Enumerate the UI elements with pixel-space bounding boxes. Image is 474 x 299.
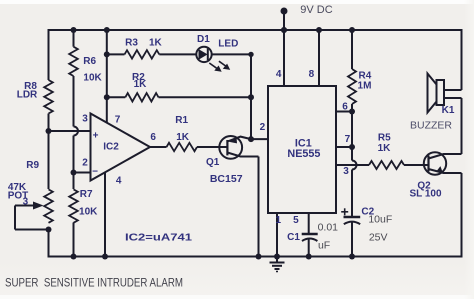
wire: to IC1 pin 2 [251,138,268,140]
wire: right rail top (supply to buzzer) [461,29,463,90]
wire: node B to R7 [73,173,75,190]
node: pin 1 on ground rail [274,254,280,260]
wire: R2 right lead [159,96,252,98]
wire: C1 to ground rail [308,240,310,257]
svg-text:D1: D1 [197,34,210,45]
node: R3/R2 branch on supply rail [104,27,110,33]
svg-text:7: 7 [115,115,121,126]
svg-text:4: 4 [276,69,282,80]
wire: IC1 pin 1 to ground rail [276,213,278,257]
node B: junction R6/R7/op-amp -input [71,170,77,176]
resistor R5 1K body [369,161,404,169]
svg-text:LED: LED [218,38,238,49]
wire: IC2 pin 4 stub to ground rail [104,172,106,256]
node: R6 top on supply rail [71,27,77,33]
svg-text:6: 6 [150,132,156,143]
node: pin 8 branch on supply rail [316,27,322,33]
capacitor C2 10uF electrolytic [341,206,392,243]
node: R2 right junction [248,94,254,100]
wire: IC2 pin 7 stub [106,97,108,123]
node: IC2 pin 4 on ground rail [102,254,108,260]
svg-text:SUPER SENSITIVE INTRUDER ALAR: SUPER SENSITIVE INTRUDER ALARM [5,277,183,290]
wire: C2 to ground rail [351,223,353,257]
svg-text:3: 3 [343,166,349,177]
node: pin 6 junction [349,109,355,115]
svg-text:1K: 1K [134,79,148,90]
wire: pin 6 node down to pin 7 node [351,112,353,148]
node: C2 on ground rail [349,254,355,260]
svg-text:−: − [92,167,98,178]
svg-text:SL 100: SL 100 [409,189,441,200]
transistor Q2 SL100 NPN [409,152,461,199]
svg-text:1K: 1K [176,132,190,143]
svg-text:3: 3 [82,114,88,125]
svg-text:LDR: LDR [17,89,38,100]
wire: top supply rail [49,29,462,31]
wire: R3 left lead [107,53,125,55]
node: LED corner [248,52,253,57]
svg-text:2: 2 [260,122,266,133]
node: R9 bottom / wiper junction [46,227,52,233]
wire: IC1 pin 3 output to R5 [336,164,369,166]
wire: R4 to pin 6 node [351,104,353,112]
resistor R6 10K body [69,47,78,76]
svg-text:25V: 25V [369,232,388,244]
svg-text:BC157: BC157 [210,173,243,185]
svg-text:5: 5 [293,215,299,226]
ground symbol [270,257,285,272]
svg-text:C1: C1 [287,232,300,243]
wire: corner down to R2 right junction [250,54,252,97]
wire: op-amp -input (pin 2) from node B [74,172,91,174]
wire: Q1 collector to ground rail [258,157,260,257]
wire: R6 down, hops over +input wire [73,76,75,127]
svg-text:6: 6 [342,102,348,113]
svg-text:8: 8 [309,69,315,80]
svg-text:IC2: IC2 [103,142,119,153]
resistor R1 1K body [167,143,198,151]
wire: pin 8 of IC1 [318,30,320,86]
node: R2 left junction / IC2 pin 7 [104,94,110,100]
wire: op-amp +input (pin 3) from node A [49,130,91,132]
svg-text:R3: R3 [125,38,138,49]
wire: buzzer to Q2 collector [461,98,463,154]
svg-text:R5: R5 [378,133,391,144]
svg-text:R9: R9 [26,160,39,171]
wire: R7 to ground rail [73,223,75,257]
wire: left rail bottom segment [48,230,50,258]
svg-text:9V DC: 9V DC [300,4,332,16]
svg-text:7: 7 [345,134,351,145]
wire: node A to R9 [48,131,50,189]
node: pin 7 junction [349,144,355,150]
resistor R8 LDR body [44,80,53,114]
op-amp U2 IC2 triangle [91,114,151,181]
svg-text:10uF: 10uF [368,213,392,225]
resistor R2 1K body [125,93,158,101]
wire: LED cathode to corner [212,53,251,55]
wire: R8 to node A [48,114,50,132]
svg-text:R1: R1 [175,115,188,126]
node: R7 bottom on ground rail [71,254,77,260]
svg-text:BUZZER: BUZZER [410,120,452,132]
wire: R3 to LED anode [159,53,196,55]
svg-text:4: 4 [116,176,122,187]
svg-text:10K: 10K [83,73,102,84]
IC U1 NE555 body [268,86,336,213]
wire: IC2 output to R1 [150,146,167,148]
wire: rail down to R3 junction [106,30,108,54]
wire: junction down to R2 junction [106,54,108,97]
wire: IC1 pin 6 stub [336,111,352,113]
svg-text:+: + [93,131,99,142]
diode D1 LED [196,34,238,62]
svg-text:R6: R6 [83,56,96,67]
svg-text:1K: 1K [149,38,163,49]
wire: R2 left lead [107,96,126,98]
wire: rail to R4 [351,30,353,69]
svg-text:NE555: NE555 [287,148,320,160]
wire: pin 7 node down with hop over pin 3 wire [351,147,353,161]
potentiometer R9 wiper arrow [15,197,49,230]
wire: R5 to Q2 base [404,164,429,166]
wire: R1 to Q1 base [197,146,227,148]
node 9V DC supply terminal [281,4,333,33]
svg-text:K1: K1 [442,105,455,116]
wire: IC1 pin 7 stub [336,146,352,148]
svg-text:1: 1 [276,215,282,226]
wire: down to Q1 emitter node [250,97,252,139]
svg-text:2: 2 [82,158,88,169]
resistor R7 10K body [69,189,78,222]
svg-text:IC2=uA741: IC2=uA741 [125,232,192,244]
node: Q1 emitter / IC1 pin 2 junction [248,136,254,142]
svg-text:1K: 1K [378,143,392,154]
svg-text:1M: 1M [358,81,372,92]
node: R4 top on supply rail [349,27,355,33]
node: Q1 collector on ground rail [256,254,262,260]
svg-text:Q1: Q1 [206,157,220,168]
svg-text:0.01: 0.01 [318,221,339,233]
svg-text:uF: uF [318,240,330,252]
wire: bottom ground rail [48,256,462,258]
svg-text:R7: R7 [80,189,93,200]
node: R3 left junction [104,51,110,57]
potentiometer R9 47K body [44,189,53,222]
node A: junction R8/R9/op-amp +input [46,128,52,134]
capacitor C1 0.01uF [287,221,338,251]
LED emission arrows [209,61,230,72]
transistor Q1 BC157 PNP [206,136,258,185]
svg-text:10K: 10K [79,207,98,218]
resistor R4 1M body [348,69,356,104]
node: pin 4 branch on supply rail [281,27,287,33]
wire: Q2 emitter to ground rail [461,173,463,258]
wire: pin 4 of IC1 [283,30,285,86]
buzzer K1 [410,74,462,132]
node: C1 on ground rail [306,254,312,260]
resistor R3 1K body [125,50,160,58]
wire: IC1 pin 5 to C1 [308,213,310,234]
wire: rail to R6 [73,30,75,47]
wire: left rail upper segment [48,29,50,80]
